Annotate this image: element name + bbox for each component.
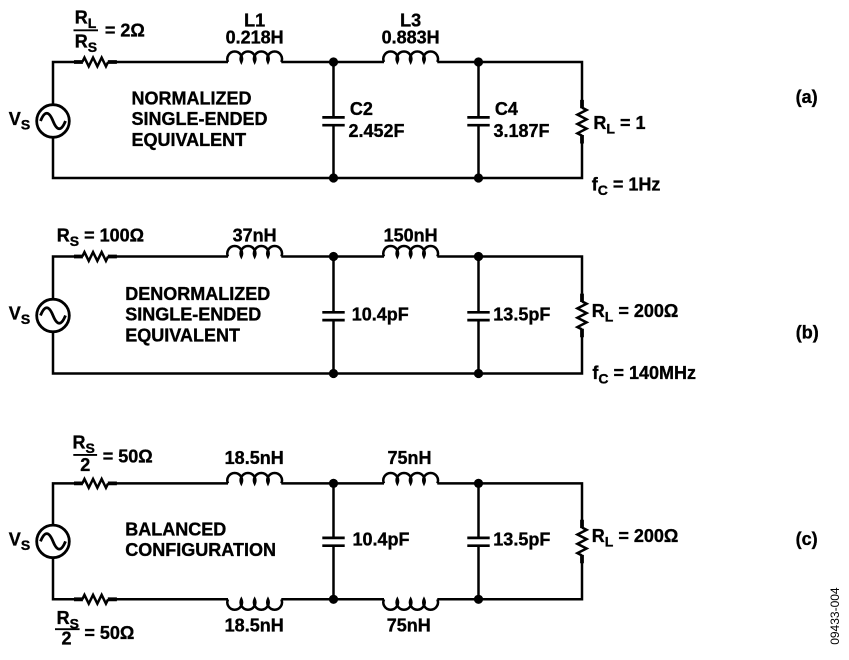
svg-text:VS: VS [9, 304, 30, 328]
svg-text:(b): (b) [796, 323, 819, 343]
svg-text:18.5nH: 18.5nH [225, 615, 284, 635]
capacitor first plates (c) [322, 538, 344, 546]
inductor first (b) [227, 246, 282, 256]
junction dot (a) (333.5,62) [329, 57, 338, 66]
svg-text:RL: RL [75, 7, 97, 31]
capacitor second leads (a) [477, 62, 480, 178]
label C4 3.187F (a) [494, 99, 550, 141]
svg-text:75nH: 75nH [387, 448, 431, 468]
voltage source circle (b) [37, 299, 70, 332]
wire top-left corner (b) [53, 257, 82, 300]
junction dot (a) (478.5,62) [474, 57, 483, 66]
svg-text:RL = 200Ω: RL = 200Ω [592, 526, 679, 550]
svg-text:BALANCED: BALANCED [125, 520, 226, 540]
resistor RS zigzag (c) [82, 479, 108, 488]
resistor RL zigzag (b) [577, 301, 586, 329]
junction dot (c) (478.5,483.4) [474, 479, 483, 488]
wire RS to L-first (b) [108, 255, 228, 258]
svg-text:(a): (a) [796, 87, 818, 107]
svg-text:(c): (c) [796, 529, 818, 549]
svg-text:RS: RS [73, 433, 95, 457]
svg-text:RS: RS [75, 32, 97, 56]
inductor bottom first (c) [227, 599, 282, 609]
svg-text:0.883H: 0.883H [382, 28, 440, 48]
svg-text:VS: VS [9, 530, 30, 554]
capacitor first leads (c) [332, 483, 335, 599]
inductor first (c) [227, 473, 282, 483]
wire between inductors (a) [281, 61, 384, 64]
capacitor second plates (b) [467, 312, 489, 320]
svg-text:DENORMALIZED: DENORMALIZED [125, 284, 270, 304]
svg-text:2: 2 [61, 629, 71, 649]
wire bottom (a) [53, 137, 582, 178]
inductor bottom second (c) [383, 599, 438, 609]
svg-text:3.187F: 3.187F [494, 121, 550, 141]
capacitor first plates (a) [322, 117, 344, 125]
svg-text:RS = 100Ω: RS = 100Ω [57, 225, 144, 249]
junction dot (b) (333.5,373.5) [329, 369, 338, 378]
svg-text:2: 2 [80, 455, 90, 475]
resistor source lead nubs (b) [74, 255, 117, 259]
voltage source sine (a) [41, 113, 66, 129]
svg-text:EQUIVALENT: EQUIVALENT [125, 326, 240, 346]
wire top-left corner (c) [53, 483, 82, 525]
resistor RL zigzag (c) [577, 528, 586, 556]
junction dot (c) (333.5,483.4) [329, 479, 338, 488]
svg-text:RL = 200Ω: RL = 200Ω [592, 301, 679, 325]
label RS/2 = 50ohm top fraction (c) [73, 433, 153, 475]
inductor second (a) [383, 52, 438, 62]
wire bottom-left corner (c) [53, 558, 82, 600]
junction dot (a) (478.5,178) [474, 173, 483, 182]
resistor source lead nubs (c) [74, 481, 117, 485]
title NORMALIZED SINGLE-ENDED EQUIVALENT (a) [132, 89, 268, 150]
svg-text:13.5pF: 13.5pF [493, 305, 550, 325]
svg-text:75nH: 75nH [387, 615, 431, 635]
wire bottom-right corner (c) [437, 563, 582, 599]
capacitor first plates (b) [322, 312, 344, 320]
svg-text:09433-004: 09433-004 [828, 587, 842, 645]
svg-text:37nH: 37nH [233, 225, 277, 245]
wire to top-right corner (b) [437, 257, 582, 294]
resistor source lead nubs (a) [74, 60, 117, 64]
voltage source circle (c) [37, 525, 70, 558]
wire top-left corner (a) [53, 62, 82, 105]
label RS/2 = 50ohm bottom fraction (c) [55, 608, 134, 648]
capacitor second leads (b) [477, 257, 480, 374]
svg-text:0.218H: 0.218H [226, 28, 284, 48]
wire between inductors (c) [281, 482, 384, 485]
junction dot (c) (333.5,599.3) [329, 595, 338, 604]
resistor RS zigzag (b) [82, 252, 108, 261]
wire between inductors (b) [281, 255, 384, 258]
svg-text:NORMALIZED: NORMALIZED [132, 89, 252, 109]
svg-text:C2: C2 [350, 99, 373, 119]
svg-text:EQUIVALENT: EQUIVALENT [132, 130, 247, 150]
junction dot (a) (333.5,178) [329, 173, 338, 182]
svg-text:150nH: 150nH [384, 225, 438, 245]
svg-text:VS: VS [9, 109, 30, 133]
capacitor second leads (c) [477, 483, 480, 599]
wire bottom mid (c) [281, 598, 384, 601]
resistor RS bottom zigzag (c) [82, 595, 108, 604]
junction dot (b) (478.5,256.5) [474, 252, 483, 261]
wire to top-right corner (c) [437, 483, 582, 520]
resistor RS zigzag (a) [82, 58, 108, 67]
wire RS to L-first (a) [108, 61, 228, 64]
wire to top-right corner (a) [437, 62, 582, 100]
resistor RL lead nubs (b) [580, 294, 584, 338]
capacitor second plates (a) [467, 117, 489, 125]
junction dot (c) (478.5,599.3) [474, 595, 483, 604]
resistor RS bottom lead nubs (c) [74, 597, 117, 601]
svg-text:10.4pF: 10.4pF [352, 305, 409, 325]
svg-text:C4: C4 [495, 99, 518, 119]
svg-text:18.5nH: 18.5nH [225, 448, 284, 468]
resistor RL lead nubs (a) [580, 100, 584, 144]
label C2 2.452F (a) [349, 99, 405, 141]
inductor first (a) [227, 52, 282, 62]
title DENORMALIZED SINGLE-ENDED EQUIVALENT (b) [125, 284, 270, 346]
capacitor second plates (c) [467, 538, 489, 546]
wire bottom (b) [53, 332, 582, 374]
capacitor first leads (b) [332, 257, 335, 374]
svg-text:13.5pF: 13.5pF [493, 530, 550, 550]
title BALANCED CONFIGURATION (c) [125, 520, 276, 560]
voltage source sine (c) [41, 534, 66, 550]
svg-text:2.452F: 2.452F [349, 121, 405, 141]
inductor second (c) [383, 473, 438, 483]
svg-text:10.4pF: 10.4pF [353, 530, 410, 550]
capacitor first leads (a) [332, 62, 335, 178]
svg-text:RL = 1: RL = 1 [593, 113, 645, 137]
resistor RL zigzag (a) [577, 108, 586, 136]
svg-text:= 50Ω: = 50Ω [103, 447, 153, 467]
svg-text:= 50Ω: = 50Ω [84, 623, 134, 643]
voltage source sine (b) [41, 308, 66, 324]
inductor second (b) [383, 246, 438, 256]
wire RS to L-first (c) [108, 482, 228, 485]
label RL/RS = 2ohm fraction (a) [74, 7, 145, 55]
svg-text:fC = 1Hz: fC = 1Hz [592, 174, 661, 198]
svg-text:CONFIGURATION: CONFIGURATION [125, 540, 276, 560]
junction dot (b) (478.5,373.5) [474, 369, 483, 378]
resistor RL lead nubs (c) [580, 520, 584, 564]
svg-text:= 2Ω: = 2Ω [105, 21, 145, 41]
wire bottom RS right lead (c) [108, 598, 228, 601]
voltage source circle (a) [37, 105, 70, 138]
svg-text:fC = 140MHz: fC = 140MHz [592, 363, 696, 387]
junction dot (b) (333.5,256.5) [329, 252, 338, 261]
svg-text:SINGLE-ENDED: SINGLE-ENDED [125, 305, 261, 325]
svg-text:SINGLE-ENDED: SINGLE-ENDED [132, 109, 268, 129]
